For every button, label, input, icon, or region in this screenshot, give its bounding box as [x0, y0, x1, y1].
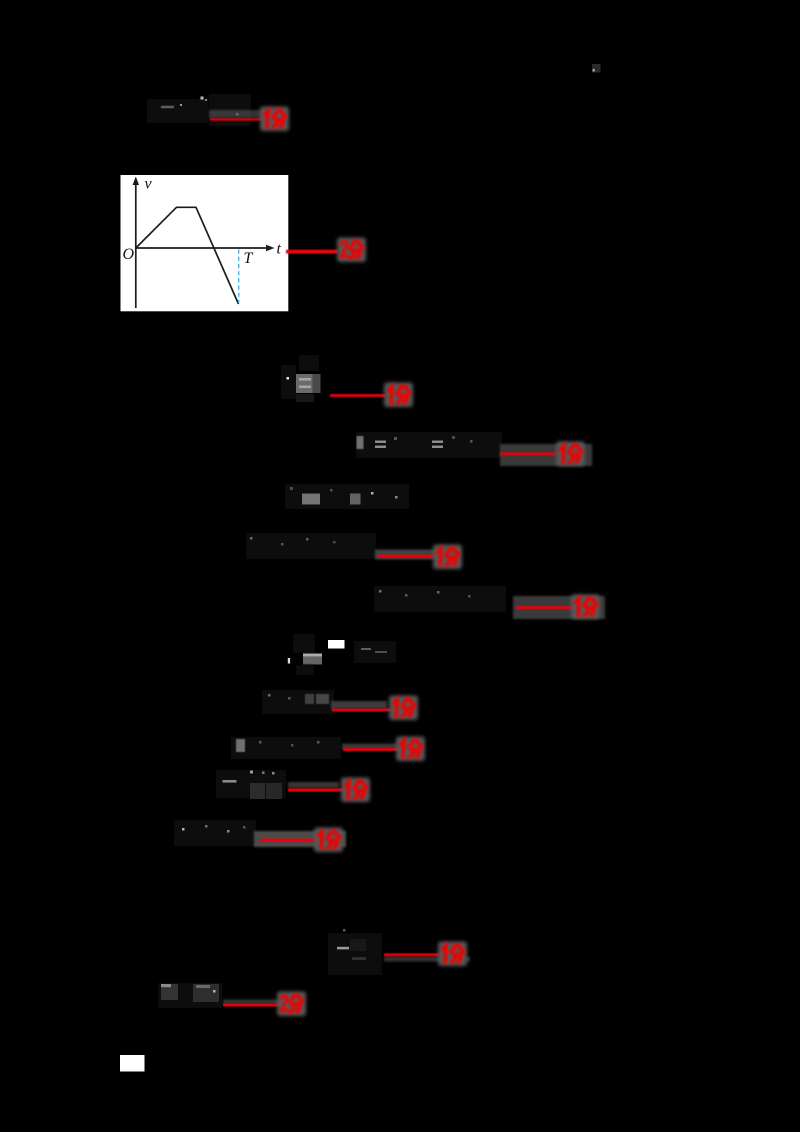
mark row7: stamp 1fen	[433, 545, 462, 570]
mark row7: red line	[378, 555, 434, 558]
formula row15 smudge (y~983-1008)	[158, 983, 222, 1008]
mark row2: red line	[286, 250, 338, 254]
mark row8: gray band	[513, 596, 605, 619]
formula row7 smudge (y~532-560)	[246, 533, 376, 559]
mark row7: gray band	[375, 550, 437, 560]
mark row5: gray band	[500, 444, 592, 466]
mark row15: stamp 2fen	[277, 992, 306, 1017]
top-right small gray square	[592, 64, 601, 73]
formula row9 fraction block (y~634-673)	[288, 634, 396, 675]
t axis	[136, 247, 270, 249]
mark row4: red line	[330, 394, 386, 397]
mark row15: gray band	[223, 1000, 291, 1005]
mark row1: gray band over line	[209, 110, 267, 118]
mark row12: stamp 1fen	[341, 778, 370, 803]
mark row12: red line	[288, 788, 344, 791]
mark row14: stamp 1fen	[438, 942, 467, 967]
mark row5: stamp 1fen	[556, 442, 585, 467]
mark row1: red line	[210, 118, 265, 121]
mark row5: red line	[500, 452, 556, 455]
formula row11 smudge (y~736-758)	[231, 737, 341, 759]
mark row10: red line	[332, 709, 391, 712]
formula row12 smudge (y~769-800)	[216, 770, 286, 799]
formula row4 smudge (y~356-405)	[281, 355, 321, 402]
formula row6 smudge (y~483-510, no line)	[285, 484, 409, 509]
mark row15: red line	[223, 1004, 280, 1007]
svg-text:t: t	[277, 241, 282, 258]
mark row1: stamp 1fen	[260, 107, 289, 132]
dashed T line	[238, 250, 240, 304]
v-t curve	[136, 207, 239, 304]
mark row14: gray band	[384, 957, 470, 962]
formula row14 smudge (y~933-975)	[328, 929, 382, 975]
svg-text:O: O	[123, 246, 135, 263]
bottom-left white rectangle	[120, 1055, 145, 1072]
mark row8: stamp 1fen	[571, 595, 600, 620]
mark row2: stamp 2fen	[337, 238, 366, 263]
mark row10: gray band	[331, 701, 387, 709]
mark row8: red line	[516, 606, 574, 609]
formula row8 smudge (y~585-612)	[374, 586, 506, 612]
mark row13: stamp 1fen	[314, 828, 343, 853]
labels	[123, 176, 282, 268]
formula row10 smudge (y~690-714)	[262, 690, 334, 714]
svg-text:T: T	[244, 250, 254, 267]
mark row13: gray band	[254, 831, 346, 847]
mark row10: stamp 1fen	[389, 696, 418, 721]
white graph box	[121, 175, 289, 311]
mark row4: stamp 1fen	[384, 383, 413, 408]
mark row12: gray band	[288, 782, 339, 788]
mark row11: gray band	[342, 744, 400, 750]
svg-text:v: v	[145, 176, 153, 193]
formula 1 smudge (y~95-130)	[147, 94, 251, 126]
v axis	[133, 177, 275, 309]
mark row11: red line	[343, 748, 400, 751]
mark row13: red line	[260, 839, 317, 842]
formula row13 smudge (y~820-846)	[174, 820, 256, 846]
formula row5 smudge (y~432-458)	[356, 432, 502, 458]
mark row14: red line	[384, 953, 442, 956]
mark row11: stamp 1fen	[396, 737, 425, 762]
